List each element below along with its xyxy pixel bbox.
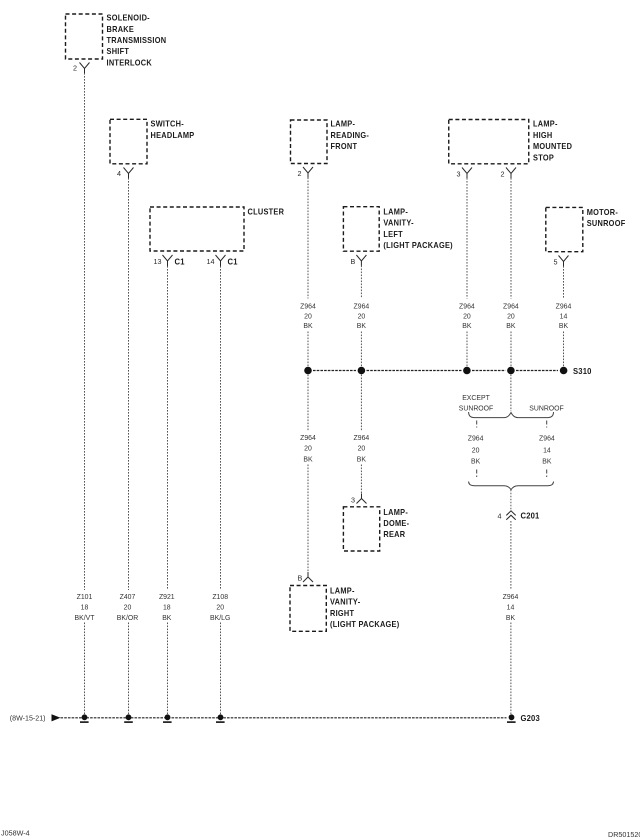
wire from option merge to connector C201 <box>510 490 512 510</box>
ground bus feed arrow <box>52 714 61 721</box>
splice label S310 <box>573 366 592 376</box>
svg-text:20: 20 <box>304 313 312 320</box>
svg-text:14: 14 <box>543 448 551 455</box>
wire label Z964 20 BK <box>354 303 370 330</box>
svg-text:BRAKE: BRAKE <box>107 24 135 33</box>
svg-text:2: 2 <box>501 170 505 179</box>
svg-text:5: 5 <box>554 258 558 267</box>
svg-text:BK: BK <box>462 323 472 330</box>
wire label Z964 20 BK (except sunroof) <box>468 436 484 466</box>
pin 2 of stop lamp connector <box>501 168 517 179</box>
option label EXCEPT SUNROOF <box>459 395 493 413</box>
ground G203 <box>507 714 540 724</box>
wire Z101 18 BK/VT from solenoid to ground bus <box>84 73 86 717</box>
svg-text:Z964: Z964 <box>503 303 519 310</box>
wire label Z964 20 BK <box>503 303 519 330</box>
option merge brace <box>469 482 554 490</box>
wire from splice S310 down to option split <box>510 375 512 412</box>
option split brace <box>469 412 554 418</box>
wire Z407 20 BK/OR from headlamp switch to ground bus <box>128 178 130 717</box>
ground bus line to G203 <box>61 717 507 719</box>
svg-text:18: 18 <box>163 604 171 611</box>
svg-text:Z964: Z964 <box>300 303 316 310</box>
ground bus reference label (8W-15-21) <box>10 715 46 723</box>
pin 13 connector C1 of cluster <box>154 255 185 267</box>
wire Z964 20 BK from splice S310 to vanity right lamp <box>307 375 309 573</box>
svg-text:C1: C1 <box>228 257 238 267</box>
svg-text:BK: BK <box>303 323 313 330</box>
svg-text:3: 3 <box>457 170 461 179</box>
ground node at cluster pin 13 wire <box>163 714 172 723</box>
svg-text:Z964: Z964 <box>556 303 572 310</box>
wire label Z964 20 BK <box>300 303 316 330</box>
svg-text:FRONT: FRONT <box>331 142 358 151</box>
wire Z964 20 BK from stop lamp pin 3 to splice S310 <box>466 178 468 367</box>
svg-text:VANITY-: VANITY- <box>383 218 414 227</box>
svg-text:(8W-15-21): (8W-15-21) <box>10 715 46 723</box>
svg-text:20: 20 <box>358 313 366 320</box>
svg-text:BK: BK <box>162 615 172 622</box>
wire label Z964 14 BK <box>503 594 519 622</box>
svg-text:MOUNTED: MOUNTED <box>533 142 572 151</box>
svg-text:STOP: STOP <box>533 153 554 162</box>
pin 3 of stop lamp connector <box>457 168 473 179</box>
option stub wire sunroof <box>546 421 548 428</box>
cluster box <box>150 207 284 251</box>
svg-text:20: 20 <box>124 604 132 611</box>
svg-text:SOLENOID-: SOLENOID- <box>107 13 151 22</box>
svg-text:LAMP-: LAMP- <box>383 207 408 216</box>
wire Z964 14 BK from sunroof motor to splice S310 <box>563 266 565 367</box>
svg-text:14: 14 <box>207 257 215 266</box>
svg-text:VANITY-: VANITY- <box>330 597 361 606</box>
sheet reference J058W-4 <box>1 829 30 838</box>
svg-text:LAMP-: LAMP- <box>331 119 356 128</box>
pin B of vanity left lamp connector <box>351 255 367 266</box>
option stub wire except sunroof lower <box>476 470 478 478</box>
splice junction node at vanity left wire <box>358 367 366 375</box>
svg-text:20: 20 <box>304 446 312 453</box>
connector C201 pin 4 <box>498 511 540 521</box>
svg-text:14: 14 <box>507 604 515 611</box>
svg-text:20: 20 <box>463 313 471 320</box>
splice junction node at sunroof motor wire <box>560 367 568 375</box>
svg-text:Z964: Z964 <box>354 303 370 310</box>
svg-text:18: 18 <box>81 604 89 611</box>
ground node at cluster pin 14 wire <box>216 714 225 723</box>
switch-headlamp box <box>110 119 194 164</box>
lamp-vanity-left box <box>343 207 453 252</box>
pin 2 of solenoid connector <box>73 63 90 74</box>
svg-text:3: 3 <box>351 496 355 505</box>
svg-text:HEADLAMP: HEADLAMP <box>151 131 195 140</box>
svg-text:20: 20 <box>507 313 515 320</box>
splice junction node at stop lamp pin 3 wire <box>463 367 471 375</box>
svg-text:REAR: REAR <box>383 530 405 539</box>
svg-text:SWITCH-: SWITCH- <box>151 119 185 128</box>
wire Z964 20 BK from splice S310 to dome lamp <box>360 375 362 494</box>
svg-text:BK: BK <box>542 459 552 466</box>
svg-text:LAMP-: LAMP- <box>383 507 408 516</box>
svg-text:13: 13 <box>154 257 162 266</box>
svg-text:DR501520: DR501520 <box>608 830 640 839</box>
svg-text:C201: C201 <box>521 511 540 521</box>
svg-text:S310: S310 <box>573 366 592 376</box>
pin 3 of dome lamp connector <box>351 494 367 505</box>
svg-text:HIGH: HIGH <box>533 131 553 140</box>
svg-text:Z101: Z101 <box>77 594 93 601</box>
wire Z921 18 BK from cluster pin 13 to ground bus <box>167 266 169 717</box>
svg-text:BK: BK <box>303 456 313 463</box>
svg-text:J058W-4: J058W-4 <box>1 829 30 838</box>
svg-text:LAMP-: LAMP- <box>330 586 355 595</box>
svg-text:TRANSMISSION: TRANSMISSION <box>107 36 167 45</box>
svg-text:2: 2 <box>298 169 302 178</box>
svg-text:CLUSTER: CLUSTER <box>248 207 285 216</box>
motor-sunroof box <box>546 207 626 251</box>
wire Z964 20 BK from vanity left lamp to splice S310 <box>360 266 362 368</box>
option stub wire except sunroof <box>476 421 478 428</box>
svg-text:SHIFT: SHIFT <box>107 47 130 56</box>
svg-text:4: 4 <box>117 169 121 178</box>
lamp-dome-rear box <box>343 507 409 551</box>
svg-text:BK: BK <box>506 615 516 622</box>
wire label Z921 18 BK <box>159 594 175 622</box>
wire Z964 20 BK from stop lamp pin 2 to splice S310 <box>510 178 512 367</box>
svg-text:RIGHT: RIGHT <box>330 609 354 618</box>
option stub wire sunroof lower <box>546 470 548 478</box>
splice junction node at reading lamp wire <box>304 367 312 375</box>
svg-text:BK/LG: BK/LG <box>210 615 230 622</box>
wire label Z964 14 BK <box>556 303 572 330</box>
svg-text:Z964: Z964 <box>300 435 316 442</box>
wire label Z101 18 BK/VT <box>75 594 96 622</box>
wire label Z407 20 BK/OR <box>117 594 138 622</box>
svg-text:BK: BK <box>471 459 481 466</box>
pin 5 of sunroof motor connector <box>554 256 569 267</box>
ground node at headlamp switch wire <box>124 714 133 723</box>
svg-text:20: 20 <box>472 448 480 455</box>
svg-text:LEFT: LEFT <box>383 230 403 239</box>
pin 4 of headlamp switch connector <box>117 168 134 179</box>
pin B of vanity right lamp connector <box>298 572 314 583</box>
lamp-vanity-right box <box>290 586 400 632</box>
svg-text:BK/OR: BK/OR <box>117 615 138 622</box>
svg-text:Z407: Z407 <box>120 594 136 601</box>
svg-text:(LIGHT PACKAGE): (LIGHT PACKAGE) <box>330 620 400 629</box>
splice junction node at stop lamp pin 2 wire <box>507 367 515 375</box>
lamp-high mounted stop box <box>449 119 573 163</box>
svg-text:Z921: Z921 <box>159 594 175 601</box>
pin 2 of reading lamp connector <box>298 167 314 178</box>
svg-text:2: 2 <box>73 64 77 73</box>
svg-text:Z964: Z964 <box>539 436 555 443</box>
svg-text:C1: C1 <box>175 257 185 267</box>
svg-text:SUNROOF: SUNROOF <box>459 406 493 413</box>
svg-text:20: 20 <box>358 446 366 453</box>
svg-text:4: 4 <box>498 512 502 521</box>
ground node at solenoid wire <box>80 714 89 723</box>
svg-text:MOTOR-: MOTOR- <box>587 208 619 217</box>
wire Z108 20 BK/LG from cluster pin 14 to ground bus <box>220 266 222 717</box>
svg-text:B: B <box>351 257 356 266</box>
svg-text:20: 20 <box>216 604 224 611</box>
svg-text:BK/VT: BK/VT <box>75 615 96 622</box>
svg-text:Z964: Z964 <box>468 436 484 443</box>
solenoid-brake transmission shift interlock box <box>66 13 167 67</box>
wire label Z108 20 BK/LG <box>210 594 230 622</box>
svg-text:(LIGHT PACKAGE): (LIGHT PACKAGE) <box>383 241 453 250</box>
option label SUNROOF <box>529 406 563 413</box>
svg-text:Z964: Z964 <box>354 435 370 442</box>
wire label Z964 14 BK (sunroof) <box>539 436 555 466</box>
svg-text:BK: BK <box>506 323 516 330</box>
svg-text:READING-: READING- <box>331 131 370 140</box>
lamp-reading-front box <box>291 119 370 163</box>
svg-text:G203: G203 <box>521 714 541 724</box>
sheet reference DR501520 <box>608 830 640 839</box>
svg-text:B: B <box>298 574 303 583</box>
svg-text:Z108: Z108 <box>212 594 228 601</box>
svg-text:EXCEPT: EXCEPT <box>462 395 490 402</box>
svg-text:BK: BK <box>357 456 367 463</box>
svg-text:Z964: Z964 <box>503 594 519 601</box>
svg-text:INTERLOCK: INTERLOCK <box>107 58 153 67</box>
svg-text:Z964: Z964 <box>459 303 475 310</box>
splice S310 bus line <box>313 370 558 372</box>
wire Z964 20 BK from reading lamp to splice S310 <box>307 178 309 368</box>
svg-text:14: 14 <box>560 313 568 320</box>
svg-text:SUNROOF: SUNROOF <box>587 219 626 228</box>
svg-text:BK: BK <box>559 323 569 330</box>
wire label Z964 20 BK <box>300 435 316 463</box>
wire label Z964 20 BK <box>354 435 370 463</box>
svg-text:LAMP-: LAMP- <box>533 119 558 128</box>
pin 14 connector C1 of cluster <box>207 255 238 267</box>
wire label Z964 20 BK <box>459 303 475 330</box>
wire Z964 14 BK from C201 to ground G203 <box>510 521 512 717</box>
svg-text:DOME-: DOME- <box>383 519 409 528</box>
svg-text:SUNROOF: SUNROOF <box>529 406 563 413</box>
svg-text:BK: BK <box>357 323 367 330</box>
